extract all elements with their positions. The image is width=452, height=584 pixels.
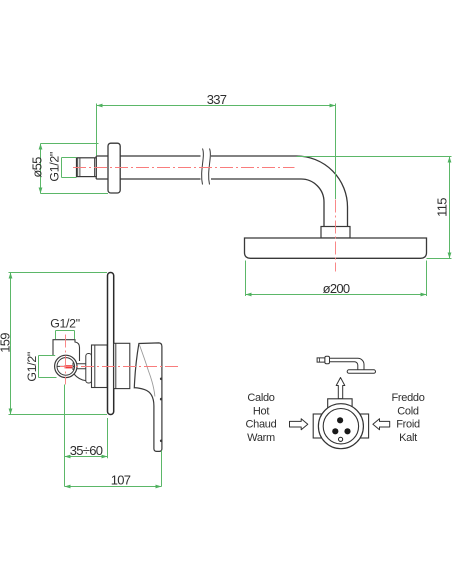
centerline mixer horizontal: [57, 366, 178, 368]
mini shower icon: [317, 356, 375, 373]
dimension 35-60: [65, 385, 108, 487]
cold arrow: [373, 419, 390, 430]
svg-text:Kalt: Kalt: [399, 432, 417, 444]
valve left tab: [313, 414, 323, 438]
dimension 159: [0, 273, 107, 415]
inlet boss outer circle: [55, 355, 77, 377]
valve port dots: [332, 417, 350, 441]
hot labels: [246, 392, 277, 444]
up arrow: [336, 378, 345, 399]
svg-text:Hot: Hot: [253, 405, 269, 417]
connection nut: [86, 354, 92, 384]
svg-text:Chaud: Chaud: [246, 419, 277, 431]
shower arm pipe with elbow: [96, 156, 347, 227]
mixer body top port: [53, 340, 80, 361]
trim ring: [114, 343, 130, 388]
svg-text:G1/2": G1/2": [47, 152, 61, 182]
svg-text:159: 159: [0, 333, 12, 353]
mixer body bottom edge: [74, 374, 86, 381]
svg-text:107: 107: [111, 472, 131, 487]
dimension diameter 200: [246, 261, 427, 297]
pipe break squiggle: [202, 149, 211, 185]
center mark red: [65, 365, 73, 368]
centerline arm horizontal: [73, 167, 295, 169]
svg-text:Caldo: Caldo: [247, 392, 274, 404]
dimension diameter 55: [30, 144, 108, 194]
svg-text:ø200: ø200: [323, 281, 350, 296]
valve top tab: [328, 399, 352, 410]
dimension 107: [65, 451, 162, 489]
wall plate side view: [108, 273, 114, 415]
valve inner circle: [323, 409, 358, 444]
wall flange (escutcheon): [108, 143, 120, 193]
dimension G1/2 side inlet: [25, 352, 57, 382]
svg-text:Cold: Cold: [397, 405, 419, 417]
head connector nut: [321, 227, 350, 239]
svg-text:G1/2": G1/2": [50, 317, 80, 331]
shower head disc: [245, 238, 427, 258]
inlet boss ring: [57, 358, 75, 376]
svg-text:337: 337: [207, 92, 227, 107]
svg-text:G1/2": G1/2": [25, 352, 39, 382]
spout pipe to cartridge: [77, 364, 92, 369]
cold labels: [391, 392, 424, 444]
dimension 115: [297, 157, 452, 259]
dimension G1/2 arm: [47, 152, 76, 182]
centerline mixer vertical: [65, 335, 67, 385]
svg-text:Froid: Froid: [396, 419, 420, 431]
pipe end cap: [95, 156, 97, 179]
valve right tab: [359, 414, 369, 438]
svg-text:ø55: ø55: [30, 157, 45, 178]
inlet slot: [58, 363, 75, 371]
dimension 337: [97, 92, 336, 199]
hot arrow: [289, 419, 307, 430]
svg-text:Freddo: Freddo: [391, 392, 424, 404]
valve outer circle: [318, 404, 363, 449]
cartridge behind wall: [92, 345, 108, 388]
threaded connector G1/2: [77, 158, 97, 177]
centerline head vertical: [335, 200, 337, 272]
handle lever: [134, 343, 162, 452]
svg-text:115: 115: [435, 198, 450, 217]
svg-text:Warm: Warm: [247, 432, 275, 444]
dimension G1/2 top port: [50, 317, 80, 340]
svg-text:35÷60: 35÷60: [70, 443, 103, 458]
